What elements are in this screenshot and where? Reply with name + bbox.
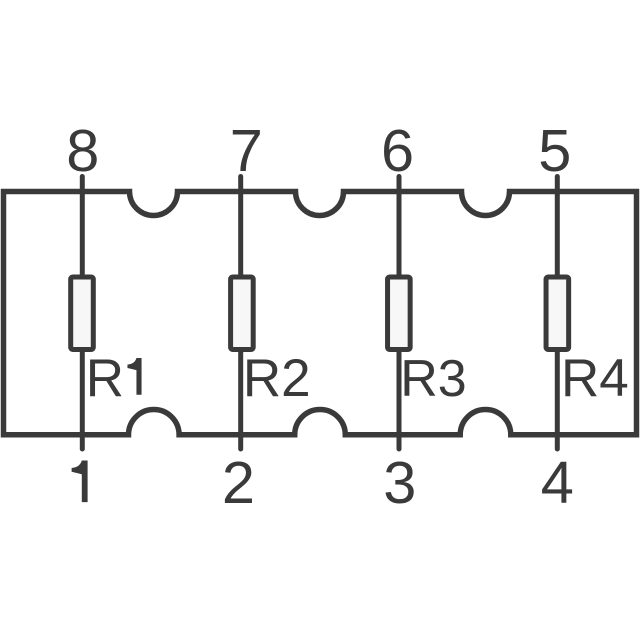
wire pin8-to-pin1 — [80, 177, 85, 450]
resistor R1 body — [71, 277, 94, 350]
resistor R4 body — [546, 277, 569, 350]
wire pin5-to-pin4 — [555, 177, 560, 450]
package body outline with pin notches — [4, 192, 637, 435]
wire pin7-to-pin2 — [238, 177, 243, 450]
svg-text:R2: R2 — [243, 349, 311, 408]
svg-text:R3: R3 — [400, 350, 466, 408]
svg-text:4: 4 — [541, 449, 574, 516]
svg-text:6: 6 — [381, 117, 414, 184]
svg-text:3: 3 — [383, 449, 416, 516]
svg-text:R: R — [86, 349, 124, 408]
svg-text:R4: R4 — [561, 349, 629, 408]
svg-text:7: 7 — [230, 117, 263, 184]
svg-text:5: 5 — [538, 117, 571, 184]
svg-text:2: 2 — [222, 449, 255, 516]
wire pin6-to-pin3 — [397, 177, 402, 450]
resistor R3 body — [388, 277, 411, 350]
resistor R2 body — [231, 277, 254, 350]
pin 1 number — [72, 461, 88, 503]
svg-text:8: 8 — [66, 117, 99, 184]
